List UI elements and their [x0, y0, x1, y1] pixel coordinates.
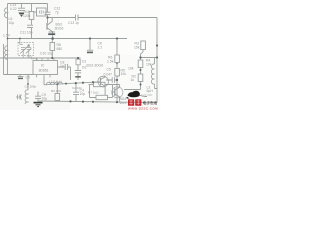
svg-text:3DG6: 3DG6 [55, 27, 64, 31]
svg-text:15k: 15k [134, 46, 140, 50]
wire right rail vertical [156, 18, 158, 103]
wire bottom rail [38, 101, 157, 103]
wire to right rail [78, 17, 157, 19]
svg-text:680: 680 [57, 47, 63, 51]
svg-text:10µ: 10µ [9, 21, 15, 25]
svg-text:C10 10µ: C10 10µ [40, 52, 53, 56]
wire filter leads [34, 11, 48, 13]
IC U1 [33, 61, 58, 75]
svg-text:C13 1p: C13 1p [68, 21, 79, 25]
svg-text:C11 10p: C11 10p [20, 31, 33, 35]
resistor R5 [116, 63, 118, 69]
svg-text:C8 100p: C8 100p [25, 85, 37, 89]
resistor R7 horizontal [90, 85, 97, 98]
resistor R9 [55, 94, 60, 101]
svg-text:C20 680: C20 680 [141, 93, 153, 97]
svg-text:7p: 7p [55, 11, 59, 15]
inductor secondary winding [5, 46, 8, 59]
wire transformer primary vertical [7, 4, 9, 75]
svg-text:C5: C5 [107, 68, 111, 72]
filter Z1 box [37, 8, 47, 16]
svg-text:10k: 10k [146, 63, 152, 67]
capacitor mic [16, 95, 22, 100]
svg-text:1k: 1k [131, 78, 135, 82]
logo char wei [128, 99, 141, 106]
capacitor C14 [18, 4, 25, 11]
svg-text:10k: 10k [121, 72, 127, 76]
tuning gang dashed box [18, 43, 34, 56]
capacitor C13 series [76, 15, 79, 21]
resistor R7a horizontal [89, 84, 94, 86]
capacitor C11 [27, 20, 33, 39]
labels [3, 3, 153, 105]
wire IC pin drop [43, 78, 45, 85]
inductor L1 horizontal [46, 82, 62, 85]
capacitor emitter dark [49, 31, 56, 33]
svg-text:R7 1kΩ: R7 1kΩ [88, 91, 99, 95]
capacitor C7 [75, 65, 81, 80]
svg-text:L1 5.6µH: L1 5.6µH [49, 80, 62, 84]
svg-text:10µ: 10µ [42, 97, 48, 101]
svg-text:0.22: 0.22 [10, 7, 17, 11]
svg-text:1.5V: 1.5V [3, 34, 11, 38]
wire top horizontal [8, 3, 48, 5]
transistor BG4 [112, 87, 123, 98]
svg-text:R9 100: R9 100 [51, 89, 61, 93]
resistor R6 [116, 39, 118, 56]
capacitor C4 [73, 83, 79, 102]
ground main [34, 102, 43, 104]
wire secondary left vertical [3, 44, 5, 75]
inductor L3 [151, 62, 154, 89]
wire osc coil link [27, 75, 29, 91]
svg-text:0.047: 0.047 [104, 73, 113, 77]
junction dots [7, 16, 158, 103]
svg-text:120k: 120k [23, 14, 31, 18]
ground C14 [19, 13, 25, 17]
inductor T2 [25, 90, 28, 104]
IC pins bottom [37, 75, 51, 78]
svg-text:BG3 3DG6: BG3 3DG6 [87, 64, 104, 68]
svg-text:1.5k: 1.5k [107, 60, 114, 64]
wire to rail [141, 57, 158, 59]
inductor L5 antenna coil [4, 8, 7, 18]
capacitor C6 [87, 39, 93, 51]
resistor R3 [141, 41, 146, 50]
svg-text:IC: IC [41, 64, 45, 68]
capacitor C9 [35, 92, 41, 102]
diode D1 [77, 58, 79, 59]
resistor R2 [138, 74, 143, 82]
svg-text:1µ: 1µ [60, 64, 64, 68]
svg-text:C2 10p: C2 10p [72, 86, 82, 90]
svg-text:9013: 9013 [120, 101, 127, 105]
logo icon mouse [127, 91, 159, 111]
svg-text:3D651: 3D651 [39, 69, 49, 73]
svg-text:WWW.DZSC.COM: WWW.DZSC.COM [128, 106, 158, 110]
transistor BG2 [47, 18, 49, 24]
wire IC ground horizontal [4, 74, 34, 76]
svg-text:电子市场: 电子市场 [143, 101, 158, 106]
wire AGC bus [0, 57, 81, 59]
svg-text:3×7B: 3×7B [31, 57, 38, 61]
transistor BG3 [98, 76, 109, 87]
svg-text:C5: C5 [26, 76, 30, 80]
svg-text:2.2: 2.2 [98, 46, 103, 50]
capacitor C8 [58, 64, 71, 80]
capacitor C3 series [106, 77, 117, 83]
capacitor C5 [18, 75, 24, 77]
IC pins top [37, 58, 55, 61]
capacitor C12 [45, 4, 51, 18]
svg-text:10µ: 10µ [80, 92, 86, 96]
resistor R4 [138, 60, 143, 68]
wire detector bus [44, 82, 98, 85]
resistor R8 [51, 39, 53, 43]
wire bus middle [8, 38, 128, 40]
wire IF output [48, 17, 76, 19]
resistor R10 [31, 4, 33, 12]
svg-text:10k: 10k [128, 67, 134, 71]
